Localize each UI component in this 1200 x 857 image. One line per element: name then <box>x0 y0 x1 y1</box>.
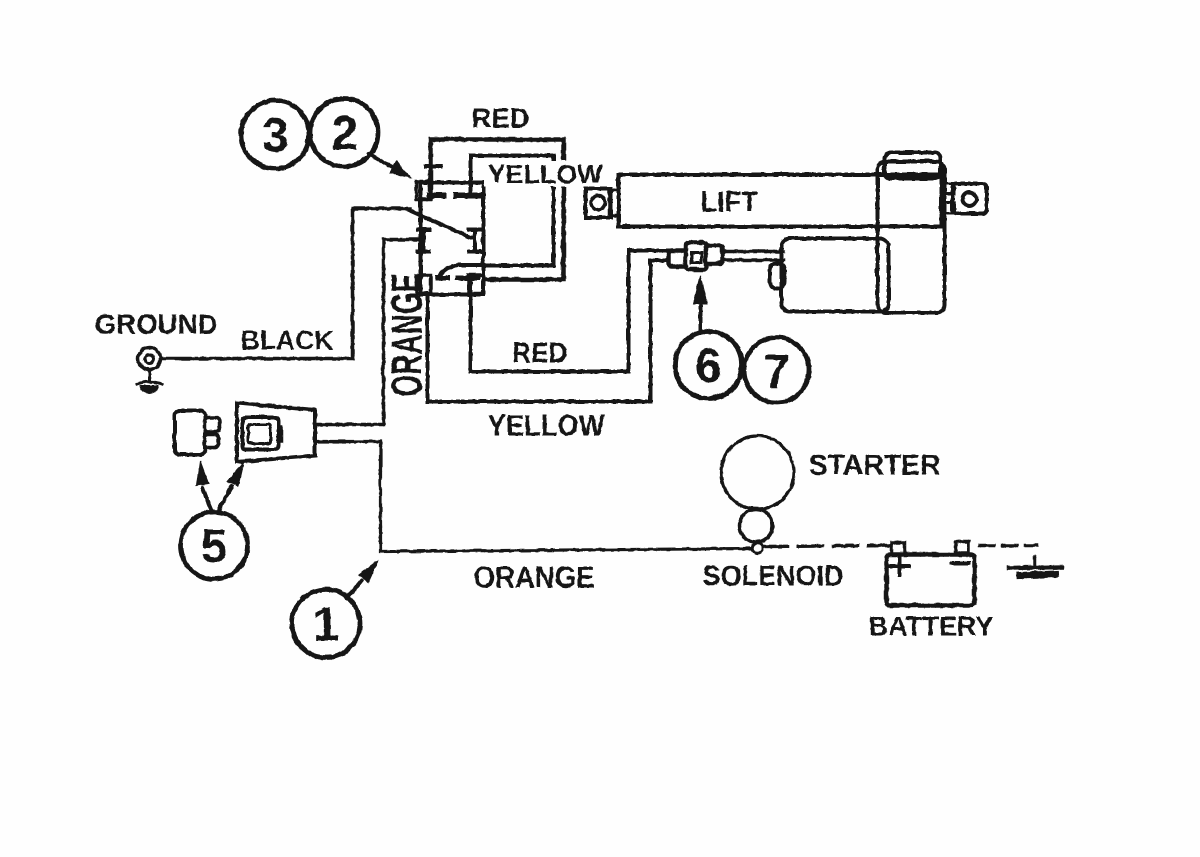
svg-text:GROUND: GROUND <box>94 308 217 339</box>
svg-text:1: 1 <box>312 598 339 651</box>
svg-text:YELLOW: YELLOW <box>487 159 602 189</box>
svg-text:3: 3 <box>262 109 289 162</box>
svg-text:7: 7 <box>763 346 790 399</box>
svg-text:RED: RED <box>512 337 567 369</box>
svg-text:SOLENOID: SOLENOID <box>702 560 843 592</box>
svg-text:ORANGE: ORANGE <box>473 559 594 594</box>
svg-text:BLACK: BLACK <box>240 324 333 355</box>
svg-text:LIFT: LIFT <box>700 186 757 218</box>
svg-text:RED: RED <box>471 102 529 133</box>
svg-text:STARTER: STARTER <box>808 449 940 481</box>
svg-text:BATTERY: BATTERY <box>868 610 993 641</box>
svg-text:ORANGE: ORANGE <box>382 273 431 396</box>
svg-text:6: 6 <box>695 340 722 393</box>
svg-text:YELLOW: YELLOW <box>487 409 605 442</box>
svg-text:2: 2 <box>331 107 358 160</box>
svg-text:5: 5 <box>200 520 227 573</box>
